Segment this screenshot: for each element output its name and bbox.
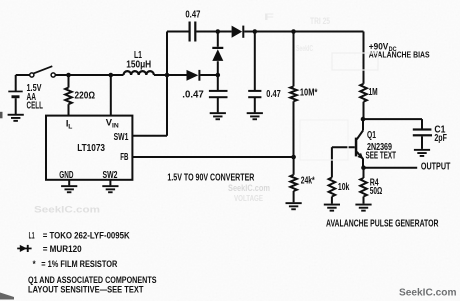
svg-text:SeekIC: SeekIC	[296, 44, 313, 53]
svg-text:LT1073: LT1073	[77, 143, 105, 154]
svg-text:.0.47: .0.47	[182, 89, 204, 100]
svg-text:= MUR120: = MUR120	[43, 243, 82, 254]
svg-text:1M: 1M	[369, 87, 378, 98]
svg-text:Q1: Q1	[367, 130, 376, 141]
svg-text:AVALANCHE PULSE GENERATOR: AVALANCHE PULSE GENERATOR	[326, 218, 439, 229]
svg-text:SeekIC.com: SeekIC.com	[399, 287, 457, 298]
svg-text:SEE TEXT: SEE TEXT	[366, 151, 397, 162]
svg-text:L: L	[68, 124, 72, 131]
svg-text:IN: IN	[112, 123, 119, 130]
svg-text:SeekIC.com: SeekIC.com	[228, 183, 270, 193]
svg-text:GND: GND	[59, 170, 73, 181]
svg-text:220Ω: 220Ω	[75, 90, 96, 101]
svg-text:TRI 25: TRI 25	[310, 16, 330, 26]
svg-text:10k: 10k	[338, 182, 350, 193]
svg-text:0.47: 0.47	[185, 10, 200, 21]
svg-text:150μH: 150μH	[126, 60, 151, 71]
svg-text:L1: L1	[29, 229, 35, 240]
svg-text:F: F	[264, 12, 275, 22]
svg-text:FB: FB	[120, 152, 128, 163]
svg-text:= TOKO 262-LYF-0095K: = TOKO 262-LYF-0095K	[43, 229, 130, 240]
svg-text:OUTPUT: OUTPUT	[421, 162, 451, 173]
svg-text:2pF: 2pF	[434, 133, 447, 144]
svg-text:SeekIC.com: SeekIC.com	[34, 205, 100, 215]
svg-text:10M*: 10M*	[300, 87, 318, 98]
svg-text:24k*: 24k*	[301, 176, 315, 187]
svg-text:SW1: SW1	[114, 132, 129, 143]
svg-text:LAYOUT SENSITIVE—SEE TEXT: LAYOUT SENSITIVE—SEE TEXT	[28, 285, 144, 296]
svg-text:0.47: 0.47	[266, 89, 281, 100]
svg-text:= 1% FILM RESISTOR: = 1% FILM RESISTOR	[41, 258, 117, 269]
svg-text:SW2: SW2	[103, 170, 118, 181]
svg-text:50Ω: 50Ω	[370, 186, 383, 197]
svg-text:*: *	[33, 258, 36, 269]
svg-text:VOLTAGE: VOLTAGE	[234, 194, 264, 203]
svg-text:CELL: CELL	[27, 100, 44, 111]
